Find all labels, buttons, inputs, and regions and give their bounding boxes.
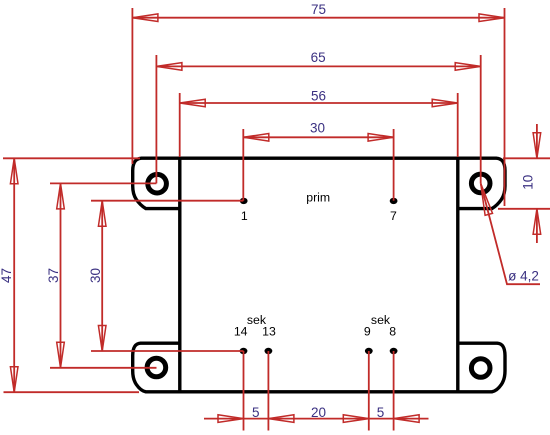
svg-text:30: 30 (310, 121, 325, 136)
svg-text:5: 5 (377, 405, 385, 420)
svg-text:47: 47 (0, 268, 14, 283)
svg-text:prim: prim (306, 190, 330, 204)
svg-text:9: 9 (364, 325, 371, 339)
svg-text:75: 75 (311, 2, 326, 17)
svg-text:1: 1 (241, 209, 248, 223)
svg-text:56: 56 (311, 89, 326, 104)
svg-text:14: 14 (234, 325, 248, 339)
svg-text:5: 5 (252, 405, 260, 420)
svg-text:8: 8 (389, 325, 396, 339)
svg-text:37: 37 (46, 268, 61, 283)
svg-text:30: 30 (88, 268, 103, 283)
svg-text:ø 4,2: ø 4,2 (508, 269, 539, 284)
svg-text:sek: sek (371, 313, 391, 327)
svg-text:20: 20 (311, 405, 326, 420)
svg-text:65: 65 (311, 50, 326, 65)
svg-text:10: 10 (521, 175, 536, 190)
svg-text:7: 7 (390, 209, 397, 223)
svg-text:13: 13 (262, 325, 276, 339)
